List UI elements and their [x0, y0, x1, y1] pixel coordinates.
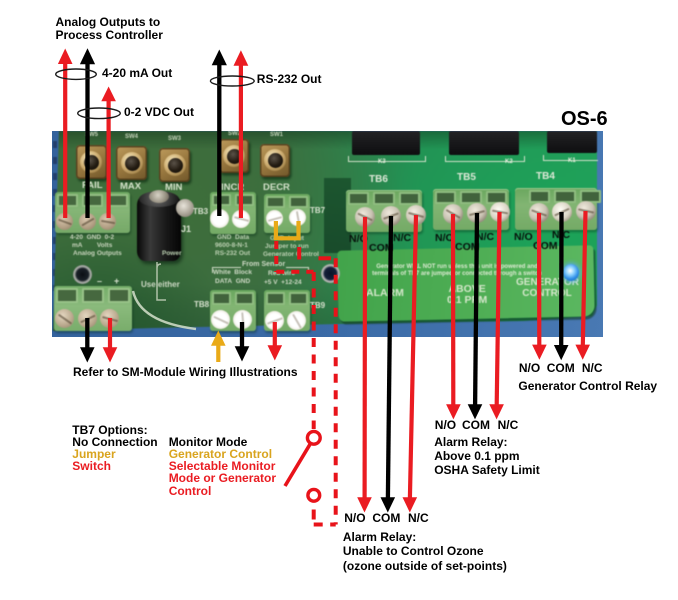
- push-button SW2 INCR: [219, 139, 249, 173]
- TB5 screw N/C: [490, 202, 510, 222]
- power TB screw 1: [55, 309, 74, 328]
- power TB screw 2 (minus): [78, 309, 97, 328]
- relay outline + label K1: [543, 155, 598, 161]
- panel label ABOVE 0.1 PPM: [447, 284, 487, 307]
- power TB screw 3 (plus): [100, 309, 119, 328]
- TB6 label: [369, 175, 388, 185]
- arrow black down from TB8 GND: [235, 322, 250, 362]
- TB5 board labels N/O COM N/C: [435, 233, 454, 244]
- annotation block: TB7 Options right column: [169, 436, 276, 497]
- label TB8 (partial): [194, 301, 209, 309]
- yellow jumper on TB7: [276, 221, 299, 238]
- relay K3: [352, 131, 420, 155]
- TB7 screw Input: [289, 209, 306, 226]
- photo of OS-6 ozone controller PCB: [52, 131, 603, 337]
- wire red TB6 N/C: [403, 215, 418, 513]
- analog TB screw 4-20: [56, 213, 73, 230]
- barrel jack J1: [137, 195, 181, 261]
- terminal block TB7: [264, 194, 310, 233]
- silkscreen White Block DATA GND: [213, 270, 252, 277]
- annotation: 0-2 VDC Out: [124, 105, 194, 119]
- wire red TB6 N/O: [357, 217, 372, 513]
- label TB9: [310, 302, 325, 310]
- button labels FAIL MAX MIN INCR DECR: [82, 181, 103, 191]
- dashed red switch-option circuit from TB7: [276, 241, 335, 525]
- TB9 screw +5V: [265, 311, 284, 330]
- arrow yellow up to TB8 DATA: [211, 331, 226, 363]
- arrow black to SM-module: [80, 318, 95, 363]
- TB4 screw N/O: [529, 203, 549, 223]
- lower sub-panel (light green): [337, 245, 594, 321]
- analog output terminal block: [55, 192, 130, 233]
- mounting hole mid: [321, 264, 340, 283]
- white silkscreen arc bottom-left of photo: [133, 291, 196, 329]
- push-button SW5 FAIL: [76, 145, 107, 179]
- push-button SW1 DECR: [260, 144, 290, 177]
- polarity marks - +: [97, 277, 102, 286]
- terminal block TB9: [264, 290, 310, 331]
- TB6 board labels N/O COM N/C: [349, 234, 368, 245]
- wire red 4-20mA out: [58, 49, 73, 219]
- TB8 screw GND: [233, 310, 252, 329]
- ellipse marker 0-2 VDC: [78, 108, 121, 119]
- TB9 screw +12-24: [287, 311, 306, 330]
- TB3 screw GND: [210, 209, 229, 228]
- dashed drop from TB7 GND: [274, 241, 278, 272]
- TB5 label: [457, 173, 476, 183]
- dashed bottom link: [314, 523, 336, 527]
- panel label ALARM: [366, 288, 404, 299]
- wire red RS-232 Data: [234, 50, 249, 218]
- wire red TB5 N/O: [446, 214, 461, 419]
- TB8 screw DATA: [211, 310, 230, 329]
- TB6 screw COM: [381, 206, 401, 226]
- switch bottom contact: [308, 489, 320, 501]
- hex standoff: [176, 199, 194, 217]
- TB7 screw GND: [266, 210, 283, 227]
- dashed right riser: [334, 258, 338, 524]
- dashed below switch: [312, 510, 316, 525]
- terminal block TB6: [346, 190, 422, 232]
- annotation: alarm relay unable labels: [344, 511, 365, 525]
- dashed horizontal to right riser: [319, 256, 332, 260]
- left frame fin marks: [53, 141, 57, 291]
- silkscreen 4-20 GND 0-2 / mA Volts / Analog Outputs: [70, 235, 114, 242]
- TB7 silkscreen: [270, 236, 304, 243]
- annotation: RS-232 Out: [257, 72, 322, 86]
- push-button SW4 MAX: [116, 146, 147, 180]
- terminal block TB5: [433, 189, 509, 230]
- arrow red to SM-module: [103, 318, 118, 363]
- wire black TB5 COM: [468, 213, 483, 419]
- analog TB screw GND: [79, 213, 96, 230]
- wire black TB4 COM: [554, 212, 569, 360]
- TB6 screw N/C: [406, 205, 426, 225]
- ellipse marker RS-232 pair: [210, 76, 254, 86]
- TB4 board labels N/O COM N/C: [514, 232, 533, 243]
- terminal block TB3: [210, 192, 256, 234]
- dashed left riser down to switch: [312, 272, 316, 429]
- annotation: Analog Outputs to Process Controller: [56, 16, 163, 43]
- silkscreen Red wire +5V +12-24: [268, 271, 295, 278]
- TB3 silkscreen: [217, 235, 249, 242]
- wire red TB5 N/C: [489, 212, 504, 419]
- wire black RS-232 GND: [212, 50, 227, 217]
- annotation: Refer to SM-Module Wiring Illustrations: [73, 365, 298, 379]
- terminal block TB4: [515, 188, 597, 230]
- dashed horizontal to left riser: [276, 270, 313, 274]
- label TB3: [193, 208, 208, 216]
- TB4 screw COM: [552, 202, 572, 222]
- silkscreen Power: [162, 251, 182, 258]
- relay K2: [449, 131, 519, 155]
- annotation: generator control relay labels: [519, 361, 540, 375]
- mounting hole bottom-left: [73, 265, 92, 284]
- main PCB board: [52, 131, 603, 337]
- analog TB screw 0-2: [99, 213, 116, 230]
- switch top contact: [307, 431, 320, 444]
- annotation: 4-20 mA Out: [102, 66, 172, 80]
- arrow red down from TB9 +5V: [268, 322, 283, 361]
- relay outline + label K3: [348, 156, 426, 162]
- annotation: alarm relay above 0.1 ppm labels: [435, 418, 456, 432]
- silkscreen From Sensor bracket: [242, 261, 285, 268]
- silkscreen Use either: [141, 281, 180, 289]
- TB5 screw COM: [467, 203, 487, 223]
- dark solder patch right of TB7: [324, 178, 351, 253]
- wire red 0-2VDC out: [101, 87, 116, 219]
- wire black GND analog out: [80, 48, 95, 218]
- blue LED right: [563, 264, 579, 281]
- wire red TB4 N/C: [575, 211, 590, 360]
- dashed drop from TB7 Input: [297, 247, 301, 260]
- white silkscreen hook near J1: [157, 262, 166, 300]
- TB3 screw Data: [232, 210, 250, 228]
- relay outline + label K2: [445, 156, 525, 162]
- TB5 screw N/O: [443, 204, 463, 224]
- push-button SW3 MIN: [159, 148, 190, 182]
- annotation block: TB7 Options left column: [72, 424, 157, 473]
- panel label GENERATOR CONTROL: [516, 277, 578, 299]
- TB6 screw N/O: [355, 207, 375, 227]
- relay K1: [547, 131, 597, 153]
- power input terminal block (bottom-left): [54, 286, 132, 331]
- label TB7: [310, 207, 325, 215]
- wire black TB6 COM: [381, 216, 396, 513]
- ellipse marker 4-20 mA pair: [56, 69, 97, 79]
- label J1: [181, 225, 191, 234]
- TB4 label: [536, 172, 555, 182]
- switch lever: [285, 444, 310, 486]
- annotation: OS-6: [561, 109, 608, 129]
- TB4 screw N/C: [576, 201, 596, 221]
- panel warning text: [352, 264, 562, 279]
- SW silkscreen labels: [85, 132, 98, 138]
- wire red TB4 N/O: [532, 213, 547, 360]
- terminal block TB8: [210, 290, 256, 331]
